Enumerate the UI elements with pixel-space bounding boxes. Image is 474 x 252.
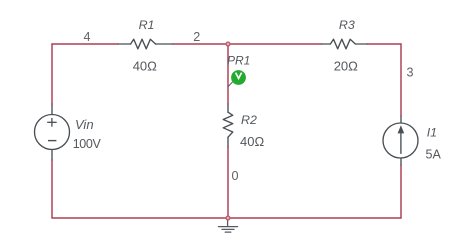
- resistor R2: [223, 104, 233, 147]
- wire bottom: [52, 217, 401, 219]
- svg-text:2: 2: [193, 30, 200, 44]
- svg-text:I1: I1: [427, 126, 437, 140]
- wire right vertical upper: [400, 44, 402, 116]
- svg-text:3: 3: [406, 66, 413, 80]
- resistor R3: [322, 39, 368, 49]
- probe PR1 letter V: [236, 73, 242, 79]
- svg-text:0: 0: [231, 169, 238, 183]
- svg-text:40Ω: 40Ω: [133, 58, 157, 73]
- wire top right: node 3 segment: [367, 43, 401, 45]
- junction node 2: [226, 42, 230, 46]
- probe PR1 body: [231, 70, 246, 85]
- wire left vertical lower: [51, 160, 53, 218]
- svg-text:R2: R2: [241, 113, 257, 127]
- svg-text:PR1: PR1: [227, 53, 250, 67]
- wire top left: node 4 segment: [52, 43, 118, 45]
- wire left vertical upper: [51, 44, 53, 104]
- ground: [219, 221, 238, 232]
- svg-text:100V: 100V: [73, 137, 102, 151]
- svg-text:Vin: Vin: [75, 117, 94, 132]
- voltage source Vin: [35, 104, 70, 160]
- svg-text:40Ω: 40Ω: [240, 134, 264, 149]
- svg-text:4: 4: [83, 30, 90, 44]
- wire right vertical lower: [400, 165, 402, 218]
- svg-text:20Ω: 20Ω: [334, 58, 358, 73]
- probe PR1 leader: [228, 82, 232, 87]
- wire middle vertical upper: [227, 44, 229, 104]
- resistor R1: [118, 39, 173, 49]
- svg-text:R3: R3: [339, 18, 355, 32]
- svg-text:5A: 5A: [426, 148, 442, 162]
- wire top middle: node 2 segment: [173, 43, 322, 45]
- current source I1: [383, 116, 418, 165]
- junction node 0: [226, 216, 230, 220]
- wire middle vertical lower: [227, 147, 229, 218]
- svg-text:R1: R1: [139, 18, 155, 32]
